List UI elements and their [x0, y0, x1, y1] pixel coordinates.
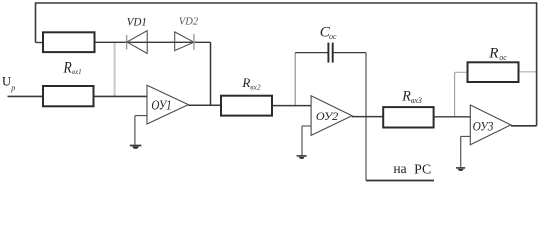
svg-text:R: R — [241, 75, 250, 90]
svg-text:ос: ос — [329, 32, 337, 41]
svg-text:R: R — [401, 89, 411, 105]
svg-text:VD1: VD1 — [127, 16, 147, 28]
svg-text:РС: РС — [414, 161, 431, 176]
svg-text:R: R — [63, 60, 72, 77]
svg-text:вх2: вх2 — [250, 83, 261, 92]
svg-text:ос: ос — [499, 53, 507, 62]
svg-text:VD2: VD2 — [179, 17, 198, 28]
svg-text:р: р — [10, 84, 15, 93]
svg-text:ОУ3: ОУ3 — [473, 119, 494, 133]
svg-text:ОУ1: ОУ1 — [151, 99, 171, 114]
svg-text:R: R — [488, 46, 498, 62]
svg-text:U: U — [2, 74, 11, 88]
svg-text:на: на — [393, 161, 406, 176]
svg-text:ОУ2: ОУ2 — [316, 111, 339, 123]
svg-text:вх1: вх1 — [72, 68, 82, 76]
svg-text:вх3: вх3 — [411, 96, 422, 105]
